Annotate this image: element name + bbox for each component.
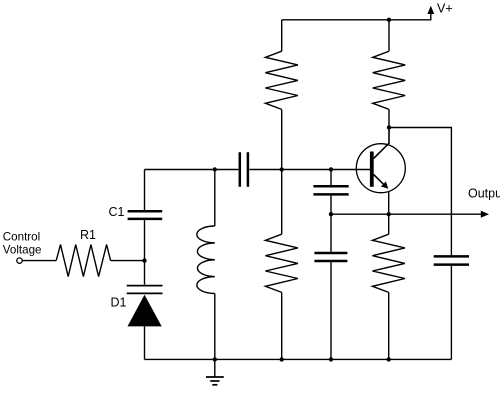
resistor upper-right (collector load) (373, 51, 406, 109)
transistor Q1 collector lead (374, 128, 389, 159)
capacitor CE bottom plate (314, 260, 347, 263)
transistor Q1 base bar (370, 152, 374, 187)
wire emitter to output node (388, 192, 390, 214)
capacitor output right bottom plate (434, 263, 469, 266)
wire rail to upper-left resistor (281, 20, 283, 51)
svg-text:Control: Control (3, 231, 40, 244)
wire lower-left resistor to ground rail (281, 292, 283, 359)
resistor emitter (372, 234, 405, 292)
capacitor CB top plate (313, 185, 348, 188)
wire base node left segment (145, 169, 239, 171)
resistor lower-left (bias) (265, 234, 298, 292)
wire emitter resistor to ground rail (388, 292, 390, 359)
capacitor CB bottom plate (313, 193, 348, 196)
junction top rail / right branch (387, 18, 391, 22)
transistor Q1 emitter arrowhead (381, 181, 388, 188)
junction ground rail / feedback branch (329, 357, 333, 361)
wire R1 to control node (111, 260, 145, 262)
junction base wire / left resistor branch (280, 167, 284, 171)
output arrowhead (481, 211, 489, 218)
wire terminal to R1 (22, 260, 56, 262)
transistor Q1 emitter lead (374, 175, 385, 186)
varactor D1 cathode bar lower (127, 292, 163, 294)
wire CE to ground rail (330, 262, 332, 359)
wire upper-right resistor to collector node (388, 109, 390, 127)
ground symbol (206, 359, 224, 384)
wire CB to output node (330, 196, 332, 215)
svg-text:C1: C1 (109, 205, 125, 219)
varactor D1 cathode bar upper (127, 285, 163, 287)
wire collector to right branch (389, 128, 451, 256)
wire base net to feedback cap CB (330, 170, 332, 186)
wire V+ rail (282, 14, 431, 20)
wire output node to feedback cap CE (330, 214, 332, 252)
terminal control voltage input (17, 258, 22, 263)
svg-text:V+: V+ (437, 1, 453, 15)
wire D1 to ground rail (144, 326, 146, 359)
wire inductor to ground rail (214, 294, 216, 360)
wire ground rail (145, 358, 452, 360)
transistor Q1 circle (356, 144, 405, 193)
wire coupling cap to transistor base (249, 169, 370, 171)
svg-text:D1: D1 (111, 296, 127, 310)
wire right cap to ground rail (450, 266, 452, 360)
resistor upper-left branch (265, 51, 298, 109)
capacitor CE top plate (314, 252, 347, 255)
capacitor C1 top plate (128, 210, 163, 213)
wire C1 to control node (144, 220, 146, 261)
resistor R1 (56, 245, 110, 277)
wire output line (331, 213, 482, 215)
junction ground rail / lower-left resistor (280, 357, 284, 361)
junction ground rail / inductor / ground symbol (213, 357, 217, 361)
capacitor output right top plate (434, 255, 469, 258)
wire base net to inductor (214, 170, 216, 227)
wire control node to varactor D1 (144, 261, 146, 285)
capacitor coupling right plate (247, 152, 250, 187)
junction base wire / feedback caps branch (329, 167, 333, 171)
capacitor C1 bottom plate (128, 218, 163, 221)
wire rail to upper-right resistor (388, 20, 390, 51)
junction ground rail / emitter resistor (387, 357, 391, 361)
svg-text:R1: R1 (80, 228, 96, 242)
svg-text:Voltage: Voltage (3, 244, 42, 257)
junction control node (142, 258, 146, 262)
junction base wire / tank branch (213, 167, 217, 171)
junction output line / emitter (387, 212, 391, 216)
wire upper-left resistor to base node (281, 109, 283, 169)
junction output line / feedback branch (329, 212, 333, 216)
wire emitter node to emitter resistor (388, 214, 390, 234)
power symbol V+ arrow (427, 6, 434, 14)
varactor D1 anode triangle (128, 295, 162, 327)
wire base node to lower-left resistor (281, 170, 283, 235)
svg-text:Output: Output (468, 186, 500, 200)
wire base net down to C1 (144, 170, 146, 211)
junction collector node (387, 125, 391, 129)
capacitor coupling left plate (239, 152, 242, 187)
inductor L1 (197, 226, 215, 294)
